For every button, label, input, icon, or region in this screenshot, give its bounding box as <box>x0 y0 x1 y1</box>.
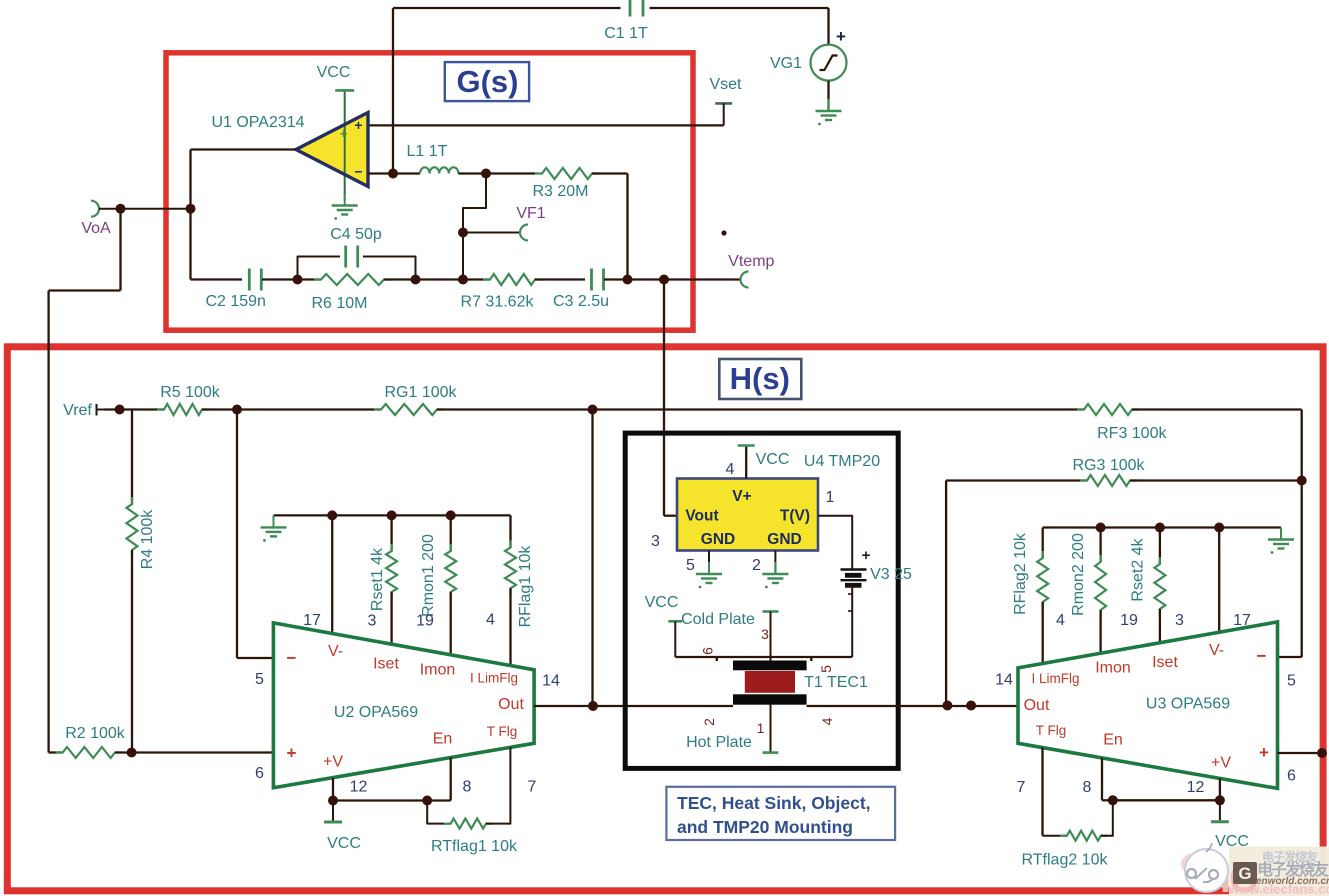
svg-text:+V: +V <box>1211 755 1231 772</box>
svg-text:R7 31.62k: R7 31.62k <box>461 294 535 311</box>
svg-text:4: 4 <box>726 461 735 478</box>
svg-text:V+: V+ <box>732 488 751 505</box>
svg-text:3: 3 <box>1175 612 1184 629</box>
svg-text:Vref: Vref <box>63 402 92 419</box>
svg-text:Iset: Iset <box>1152 654 1178 671</box>
svg-text:2: 2 <box>752 557 761 574</box>
svg-text:17: 17 <box>303 612 321 629</box>
svg-text:5: 5 <box>255 671 264 688</box>
svg-text:2: 2 <box>701 718 717 726</box>
svg-text:5: 5 <box>686 557 695 574</box>
svg-text:Imon: Imon <box>1095 660 1131 677</box>
svg-text:Rmon1 200: Rmon1 200 <box>420 534 437 617</box>
svg-text:U4 TMP20: U4 TMP20 <box>804 453 880 470</box>
svg-text:RFlag2 10k: RFlag2 10k <box>1012 532 1029 615</box>
svg-text:G: G <box>1238 864 1251 883</box>
svg-text:V-: V- <box>328 643 343 660</box>
svg-text:U1 OPA2314: U1 OPA2314 <box>211 114 304 131</box>
svg-text:RG3 100k: RG3 100k <box>1072 457 1145 474</box>
svg-text:12: 12 <box>350 779 368 796</box>
svg-text:+: + <box>836 27 846 46</box>
svg-text:V3 25: V3 25 <box>870 566 912 583</box>
svg-text:VCC: VCC <box>327 835 361 852</box>
svg-text:U2 OPA569: U2 OPA569 <box>334 704 418 721</box>
svg-text:+V: +V <box>323 754 343 771</box>
svg-text:H(s): H(s) <box>730 361 790 396</box>
svg-text:R6 10M: R6 10M <box>311 295 367 312</box>
svg-text:14: 14 <box>542 673 560 690</box>
svg-text:V-: V- <box>1209 642 1224 659</box>
svg-text:+: + <box>354 117 362 133</box>
svg-text:+: + <box>340 126 348 141</box>
svg-text:Iset: Iset <box>373 656 399 673</box>
svg-text:Out: Out <box>498 696 524 713</box>
svg-text:I LimFlg: I LimFlg <box>1031 671 1079 686</box>
svg-text:3: 3 <box>368 613 377 630</box>
svg-text:6: 6 <box>700 647 716 655</box>
svg-text:8: 8 <box>1083 779 1092 796</box>
svg-text:RFlag1 10k: RFlag1 10k <box>517 545 534 628</box>
svg-text:Rset1 4k: Rset1 4k <box>369 547 386 611</box>
svg-text:RF3 100k: RF3 100k <box>1097 425 1167 442</box>
svg-text:www.elecfans.com: www.elecfans.com <box>1228 882 1329 896</box>
svg-text:6: 6 <box>1287 768 1296 785</box>
svg-text:VCC: VCC <box>645 594 679 611</box>
svg-text:RTflag2 10k: RTflag2 10k <box>1022 852 1109 869</box>
svg-text:−: − <box>354 164 362 180</box>
svg-text:R3 20M: R3 20M <box>532 183 588 200</box>
svg-text:Vout: Vout <box>685 508 718 525</box>
svg-text:GND: GND <box>701 531 735 548</box>
svg-text:4: 4 <box>819 717 835 725</box>
svg-text:C1 1T: C1 1T <box>604 25 648 42</box>
svg-text:17: 17 <box>1233 612 1251 629</box>
svg-text:and TMP20 Mounting: and TMP20 Mounting <box>677 817 853 837</box>
svg-text:En: En <box>1103 732 1123 749</box>
svg-text:8: 8 <box>463 779 472 796</box>
svg-text:Rset2 4k: Rset2 4k <box>1130 537 1147 601</box>
svg-text:Cold Plate: Cold Plate <box>681 611 755 628</box>
svg-text:4: 4 <box>1056 612 1065 629</box>
svg-text:+: + <box>287 744 297 763</box>
svg-text:T(V): T(V) <box>780 508 810 525</box>
svg-text:6: 6 <box>255 765 264 782</box>
svg-text:U3 OPA569: U3 OPA569 <box>1146 696 1230 713</box>
svg-text:C3 2.5u: C3 2.5u <box>553 293 609 310</box>
svg-text:I LimFlg: I LimFlg <box>470 671 518 686</box>
svg-text:19: 19 <box>1120 612 1138 629</box>
svg-text:RTflag1 10k: RTflag1 10k <box>431 838 518 855</box>
svg-text:1: 1 <box>826 489 835 506</box>
svg-text:C2 159n: C2 159n <box>205 293 266 310</box>
svg-text:R4 100k: R4 100k <box>139 509 156 570</box>
svg-text:Out: Out <box>1024 697 1050 714</box>
svg-text:R5 100k: R5 100k <box>160 384 221 401</box>
svg-text:−: − <box>1257 647 1267 666</box>
svg-text:5: 5 <box>818 665 834 673</box>
svg-text:G(s): G(s) <box>457 64 519 99</box>
svg-text:VCC: VCC <box>317 64 351 81</box>
svg-text:VoA: VoA <box>81 220 111 237</box>
svg-text:1: 1 <box>757 720 765 736</box>
svg-text:GND: GND <box>767 531 801 548</box>
svg-text:T Flg: T Flg <box>1036 723 1067 738</box>
svg-text:Vset: Vset <box>709 76 742 93</box>
svg-text:TEC, Heat Sink, Object,: TEC, Heat Sink, Object, <box>677 793 871 813</box>
svg-text:VG1: VG1 <box>770 55 802 72</box>
svg-text:Hot Plate: Hot Plate <box>686 734 752 751</box>
svg-text:Imon: Imon <box>420 662 456 679</box>
svg-text:C4 50p: C4 50p <box>330 226 382 243</box>
svg-text:Rmon2 200: Rmon2 200 <box>1070 533 1087 616</box>
svg-text:+: + <box>1259 743 1269 762</box>
svg-text:19: 19 <box>416 613 434 630</box>
svg-text:+: + <box>862 547 871 564</box>
svg-text:RG1 100k: RG1 100k <box>384 384 457 401</box>
svg-text:4: 4 <box>486 612 495 629</box>
svg-text:14: 14 <box>995 672 1013 689</box>
svg-text:Vtemp: Vtemp <box>728 253 774 270</box>
svg-text:VCC: VCC <box>756 451 790 468</box>
svg-text:T1 TEC1: T1 TEC1 <box>804 674 868 691</box>
svg-text:7: 7 <box>528 779 537 796</box>
svg-text:VF1: VF1 <box>516 205 545 222</box>
svg-text:5: 5 <box>1287 673 1296 690</box>
svg-text:7: 7 <box>1017 779 1026 796</box>
svg-text:3: 3 <box>761 626 769 642</box>
svg-text:En: En <box>433 731 453 748</box>
svg-text:3: 3 <box>651 533 660 550</box>
svg-text:R2 100k: R2 100k <box>65 725 126 742</box>
svg-text:L1 1T: L1 1T <box>407 143 448 160</box>
svg-text:12: 12 <box>1187 779 1205 796</box>
svg-text:−: − <box>287 649 297 668</box>
svg-text:T Flg: T Flg <box>487 724 518 739</box>
